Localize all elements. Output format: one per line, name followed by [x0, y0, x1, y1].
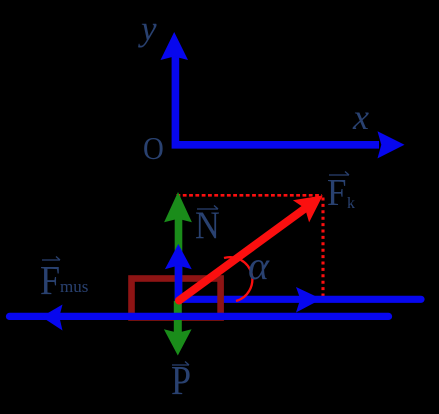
svg-text:P: P — [171, 359, 191, 404]
svg-text:F: F — [327, 171, 346, 214]
svg-text:x: x — [352, 97, 369, 137]
svg-text:O: O — [143, 131, 164, 167]
svg-text:mus: mus — [60, 277, 88, 296]
svg-text:α: α — [248, 243, 270, 288]
svg-text:F: F — [40, 259, 60, 304]
svg-text:k: k — [347, 195, 355, 212]
svg-text:y: y — [138, 9, 157, 48]
